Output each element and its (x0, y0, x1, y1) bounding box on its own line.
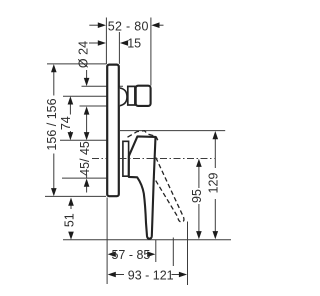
dimension 52-80 (89, 24, 163, 26)
dashed lever alternate position (154, 158, 184, 222)
dimension 129 (214, 138, 216, 169)
svg-text:Ø 24: Ø 24 (77, 41, 91, 68)
dashed handle cap alternate position (128, 131, 158, 141)
svg-text:95: 95 (190, 189, 204, 203)
extension line plate front (15 right) (118, 32, 120, 64)
svg-text:52 - 80: 52 - 80 (108, 19, 149, 33)
dimension 93-121 (116, 274, 125, 276)
dimension 45/45 (86, 113, 88, 133)
extension line middle reference (60, 139, 106, 141)
extension line knob front face (150, 18, 152, 86)
dimension 51 (70, 204, 72, 210)
handle grip and lever blade (129, 136, 156, 238)
extension line ring top (82, 85, 124, 87)
svg-text:129: 129 (206, 173, 220, 194)
extension line solid lever tip bottom (155, 240, 157, 262)
dimension 95 (198, 165, 200, 188)
extension line below plate left (106, 198, 108, 285)
centerline handle axis (dash-dot) (92, 158, 106, 160)
cartridge ring (128, 86, 135, 105)
dimension 156/156 (53, 70, 55, 96)
svg-text:57 - 85: 57 - 85 (111, 248, 150, 262)
extension line lower outlet axis (62, 177, 106, 179)
extension line bottom baseline lever tip (63, 239, 231, 241)
dimension 57-85 (108, 251, 116, 257)
cartridge dome (120, 88, 127, 106)
extension line ring bottom (80, 105, 120, 107)
extension line plate bottom (45, 195, 106, 197)
cartridge knob (136, 86, 151, 106)
extension line wall plane above plate (105, 18, 107, 65)
extension line cartridge axis (63, 95, 120, 97)
svg-text:45/ 45: 45/ 45 (78, 141, 92, 176)
svg-text:51: 51 (62, 213, 76, 227)
extension line plate top (47, 63, 106, 65)
svg-text:93 - 121: 93 - 121 (128, 268, 174, 282)
extension line 93-121 right (187, 222, 189, 286)
svg-text:15: 15 (127, 36, 141, 50)
extension line dashed lever top (129 ref) (120, 130, 225, 132)
svg-text:156 / 156: 156 / 156 (45, 98, 59, 150)
wall plate body (side view) (107, 65, 119, 197)
handle collar (123, 141, 129, 176)
dimension 15 (89, 42, 98, 44)
extension line dashed lever foot bottom (172, 238, 174, 267)
svg-text:74: 74 (59, 116, 73, 130)
dimension 74 (69, 103, 71, 115)
